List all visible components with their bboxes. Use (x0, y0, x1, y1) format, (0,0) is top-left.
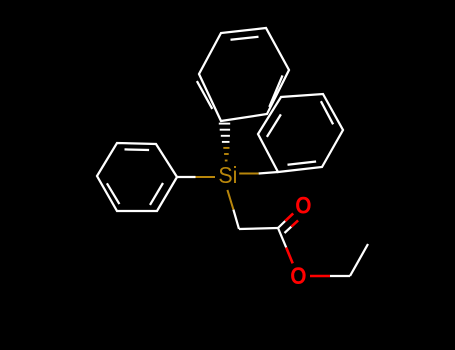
svg-text:O: O (290, 262, 306, 290)
svg-text:Si: Si (218, 162, 237, 188)
svg-text:O: O (295, 191, 311, 219)
